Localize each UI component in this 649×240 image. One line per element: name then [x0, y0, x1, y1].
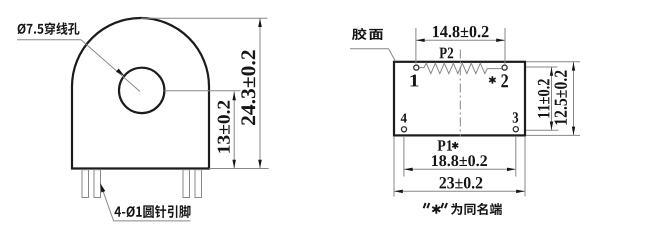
- winding P2 zigzag between terminals 1 and 2: [419, 63, 501, 73]
- terminal 2 circle: [502, 65, 507, 70]
- pin number 1: [410, 75, 418, 87]
- leader line for hole label: [17, 40, 140, 92]
- extension line from hole centre: [164, 90, 240, 92]
- dimension text 24.3±0.2: [241, 50, 255, 125]
- extension lines for 14.8: [416, 28, 505, 64]
- label: pins text: [114, 205, 190, 218]
- leader line for pins label: [100, 183, 190, 221]
- centerline (dash-dot): [459, 50, 461, 137]
- dimension line 12.5±0.2: [573, 62, 575, 136]
- dimension line 11±0.2: [551, 67, 553, 130]
- dimension text 11±0.2: [538, 79, 550, 117]
- leader arrowhead at pin: [100, 183, 105, 192]
- star marker near pin 2: [489, 76, 495, 83]
- dimension line 14.8±0.2: [416, 39, 505, 41]
- dimension text 18.8±0.2: [432, 155, 487, 166]
- extension line from dome top: [141, 17, 268, 19]
- terminal 3 circle: [513, 127, 518, 132]
- label: glue face: [352, 28, 383, 40]
- label P2: [439, 47, 453, 58]
- leader arrowhead at hole: [116, 69, 124, 76]
- left view: transformer body outline: [72, 18, 209, 168]
- dimension line 18.8±0.2: [404, 168, 516, 170]
- pin number 4: [401, 113, 407, 122]
- dimension line 23±0.2: [394, 190, 525, 192]
- dimension line 13±0.2: [233, 92, 235, 169]
- pin number 2: [501, 74, 508, 87]
- extension lines for 11: [526, 67, 559, 130]
- label P1: [438, 140, 452, 150]
- left view: pin 4 (round pin lead): [195, 170, 202, 198]
- dimension text 14.8±0.2: [433, 26, 489, 38]
- extension line from body bottom: [209, 168, 269, 170]
- label: hole size text: [18, 22, 80, 35]
- left view: pin 3 (round pin lead): [183, 170, 190, 198]
- terminal 1 circle: [414, 65, 419, 70]
- pin number 3: [513, 112, 518, 122]
- dimension text 12.5±0.2: [555, 71, 567, 125]
- dimension line 24.3±0.2: [259, 18, 261, 168]
- left view: pin 1 (round pin lead): [82, 170, 89, 198]
- left view: pin 2 (round pin lead): [94, 170, 101, 198]
- dimension text 23±0.2: [440, 177, 483, 189]
- extension lines for 18.8: [404, 136, 516, 177]
- star marker of P1: [452, 142, 458, 149]
- terminal 4 circle: [401, 127, 406, 132]
- left view: through-hole circle: [119, 68, 164, 113]
- right view: package body rectangle: [394, 62, 525, 136]
- extension lines for 12.5: [526, 62, 580, 136]
- dimension text 13±0.2: [218, 101, 230, 153]
- leader line for glue-face label: [350, 49, 396, 62]
- note: star means same-polarity terminal: [424, 203, 502, 215]
- extension lines for 23: [394, 136, 525, 196]
